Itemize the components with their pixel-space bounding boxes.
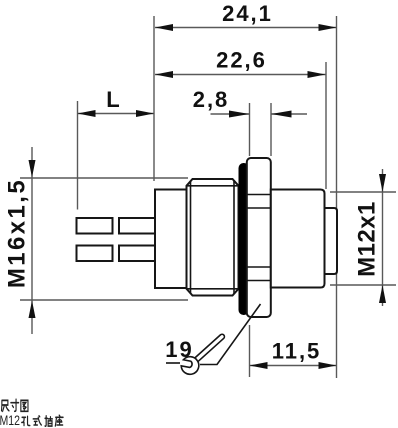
svg-text:22,6: 22,6 <box>216 48 267 73</box>
svg-text:M16x1,5: M16x1,5 <box>4 178 31 288</box>
svg-text:L: L <box>106 87 121 112</box>
svg-text:24,1: 24,1 <box>222 1 273 26</box>
svg-text:19: 19 <box>165 337 193 362</box>
svg-text:M12: M12 <box>0 413 20 428</box>
svg-text:2,8: 2,8 <box>193 87 230 112</box>
svg-text:M12x1: M12x1 <box>354 201 381 277</box>
svg-text:11,5: 11,5 <box>272 339 322 364</box>
